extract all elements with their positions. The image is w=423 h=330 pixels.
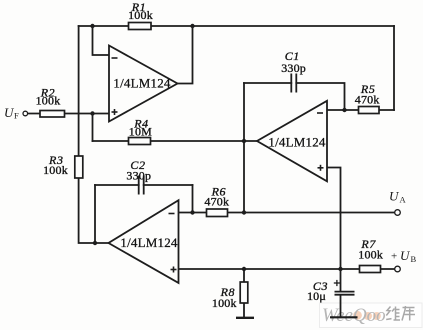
capacitor C3 plates xyxy=(335,292,355,295)
resistor R6 xyxy=(207,209,228,217)
resistor R1 xyxy=(129,23,152,30)
resistor R7 xyxy=(360,266,381,273)
svg-text:470k: 470k xyxy=(204,194,229,208)
svg-text:F: F xyxy=(14,111,19,121)
svg-text:U: U xyxy=(389,189,400,204)
wire UF node down to R4 row xyxy=(92,114,94,142)
svg-text:100k: 100k xyxy=(36,94,61,108)
resistor R3 xyxy=(75,156,83,178)
terminal UB xyxy=(395,266,401,272)
op-amp U2 middle-right 1/4LM124 (points left) xyxy=(257,101,327,182)
svg-text:100k: 100k xyxy=(128,8,153,22)
node C2 right / R6 left xyxy=(190,210,194,214)
terminal UA xyxy=(395,210,401,216)
wire R5 row opamp2 minus xyxy=(327,109,394,111)
terminal UF xyxy=(23,111,28,116)
wire R4 row to opamp2 output tip xyxy=(93,140,258,142)
ground under R8 xyxy=(236,317,254,319)
node opamp2 out / C1 xyxy=(242,139,246,143)
node opamp3 plus / R8 xyxy=(242,267,246,271)
watermark weiku glyphs xyxy=(386,306,415,321)
wire C3 bottom leg to ground xyxy=(340,296,342,318)
wire opamp1 output up to top rail xyxy=(178,26,193,84)
svg-text:1/4LM124: 1/4LM124 xyxy=(120,235,178,250)
svg-text:+: + xyxy=(391,251,397,263)
op-amp U3 bottom-left 1/4LM124 (points left) xyxy=(109,200,179,283)
node R6 right / UA xyxy=(242,210,246,214)
wire feedback to opamp1 inverting input xyxy=(93,26,110,55)
svg-text:330p: 330p xyxy=(281,61,306,75)
node R1 left / opamp1 inv xyxy=(90,24,94,28)
wire opamp2 plus over to C3 vertical xyxy=(327,168,341,270)
wire left vertical through R3 to opamp3 output xyxy=(79,26,109,243)
svg-text:U: U xyxy=(400,248,411,263)
wire R6 UA row xyxy=(179,212,398,214)
wire right rail down to R5 xyxy=(393,26,395,110)
svg-text:1/4LM124: 1/4LM124 xyxy=(268,135,326,150)
wire C1 left leg / opamp2 out vertical xyxy=(243,83,245,213)
svg-text:WeeQoo: WeeQoo xyxy=(322,305,386,326)
resistor R2 xyxy=(40,111,65,118)
svg-text:A: A xyxy=(400,195,407,205)
resistor R4 xyxy=(129,138,151,145)
wire C1 row right segment down to R5 row xyxy=(296,83,344,110)
svg-text:10μ: 10μ xyxy=(307,289,326,303)
node UF / opamp1 plus / R4 xyxy=(90,111,94,115)
wire C1 row left segment xyxy=(244,82,291,84)
wire R8 leg to ground xyxy=(243,269,245,318)
node C3 / opamp2 plus / R7 xyxy=(338,267,342,271)
wire C3 top leg xyxy=(340,269,342,291)
wire C2 left leg down to opamp3 output xyxy=(94,185,96,243)
wire C2 row left segment xyxy=(95,184,139,186)
node opamp3 out / C2 xyxy=(93,241,97,245)
svg-text:470k: 470k xyxy=(355,92,380,106)
C3 polarity plus xyxy=(334,280,340,286)
node R1 right / opamp1 out xyxy=(190,24,194,28)
capacitor C1 plates xyxy=(291,74,296,93)
svg-text:330p: 330p xyxy=(126,168,151,182)
resistor R5 xyxy=(359,107,380,114)
wire C2 right leg down to R6 row xyxy=(192,185,194,213)
svg-text:B: B xyxy=(411,254,417,264)
wire UF input row to opamp1 plus xyxy=(28,113,110,115)
svg-text:10M: 10M xyxy=(129,125,152,139)
op-amp U1 top-left 1/4LM124 xyxy=(109,46,178,122)
svg-text:100k: 100k xyxy=(358,247,383,261)
node C1 right / R5 left xyxy=(342,108,346,112)
watermark box xyxy=(320,303,423,328)
svg-text:100k: 100k xyxy=(212,296,237,310)
svg-text:100k: 100k xyxy=(43,163,68,177)
watermark WeeQoo peach dots xyxy=(353,311,381,320)
wire opamp3 plus row to UB xyxy=(179,268,398,270)
ground under C3 xyxy=(330,316,358,318)
wire top rail R1 row xyxy=(79,25,394,27)
svg-text:1/4LM124: 1/4LM124 xyxy=(113,76,171,91)
capacitor C2 plates xyxy=(139,176,144,195)
resistor R8 xyxy=(240,282,248,303)
wire C2 row right segment xyxy=(144,184,193,186)
